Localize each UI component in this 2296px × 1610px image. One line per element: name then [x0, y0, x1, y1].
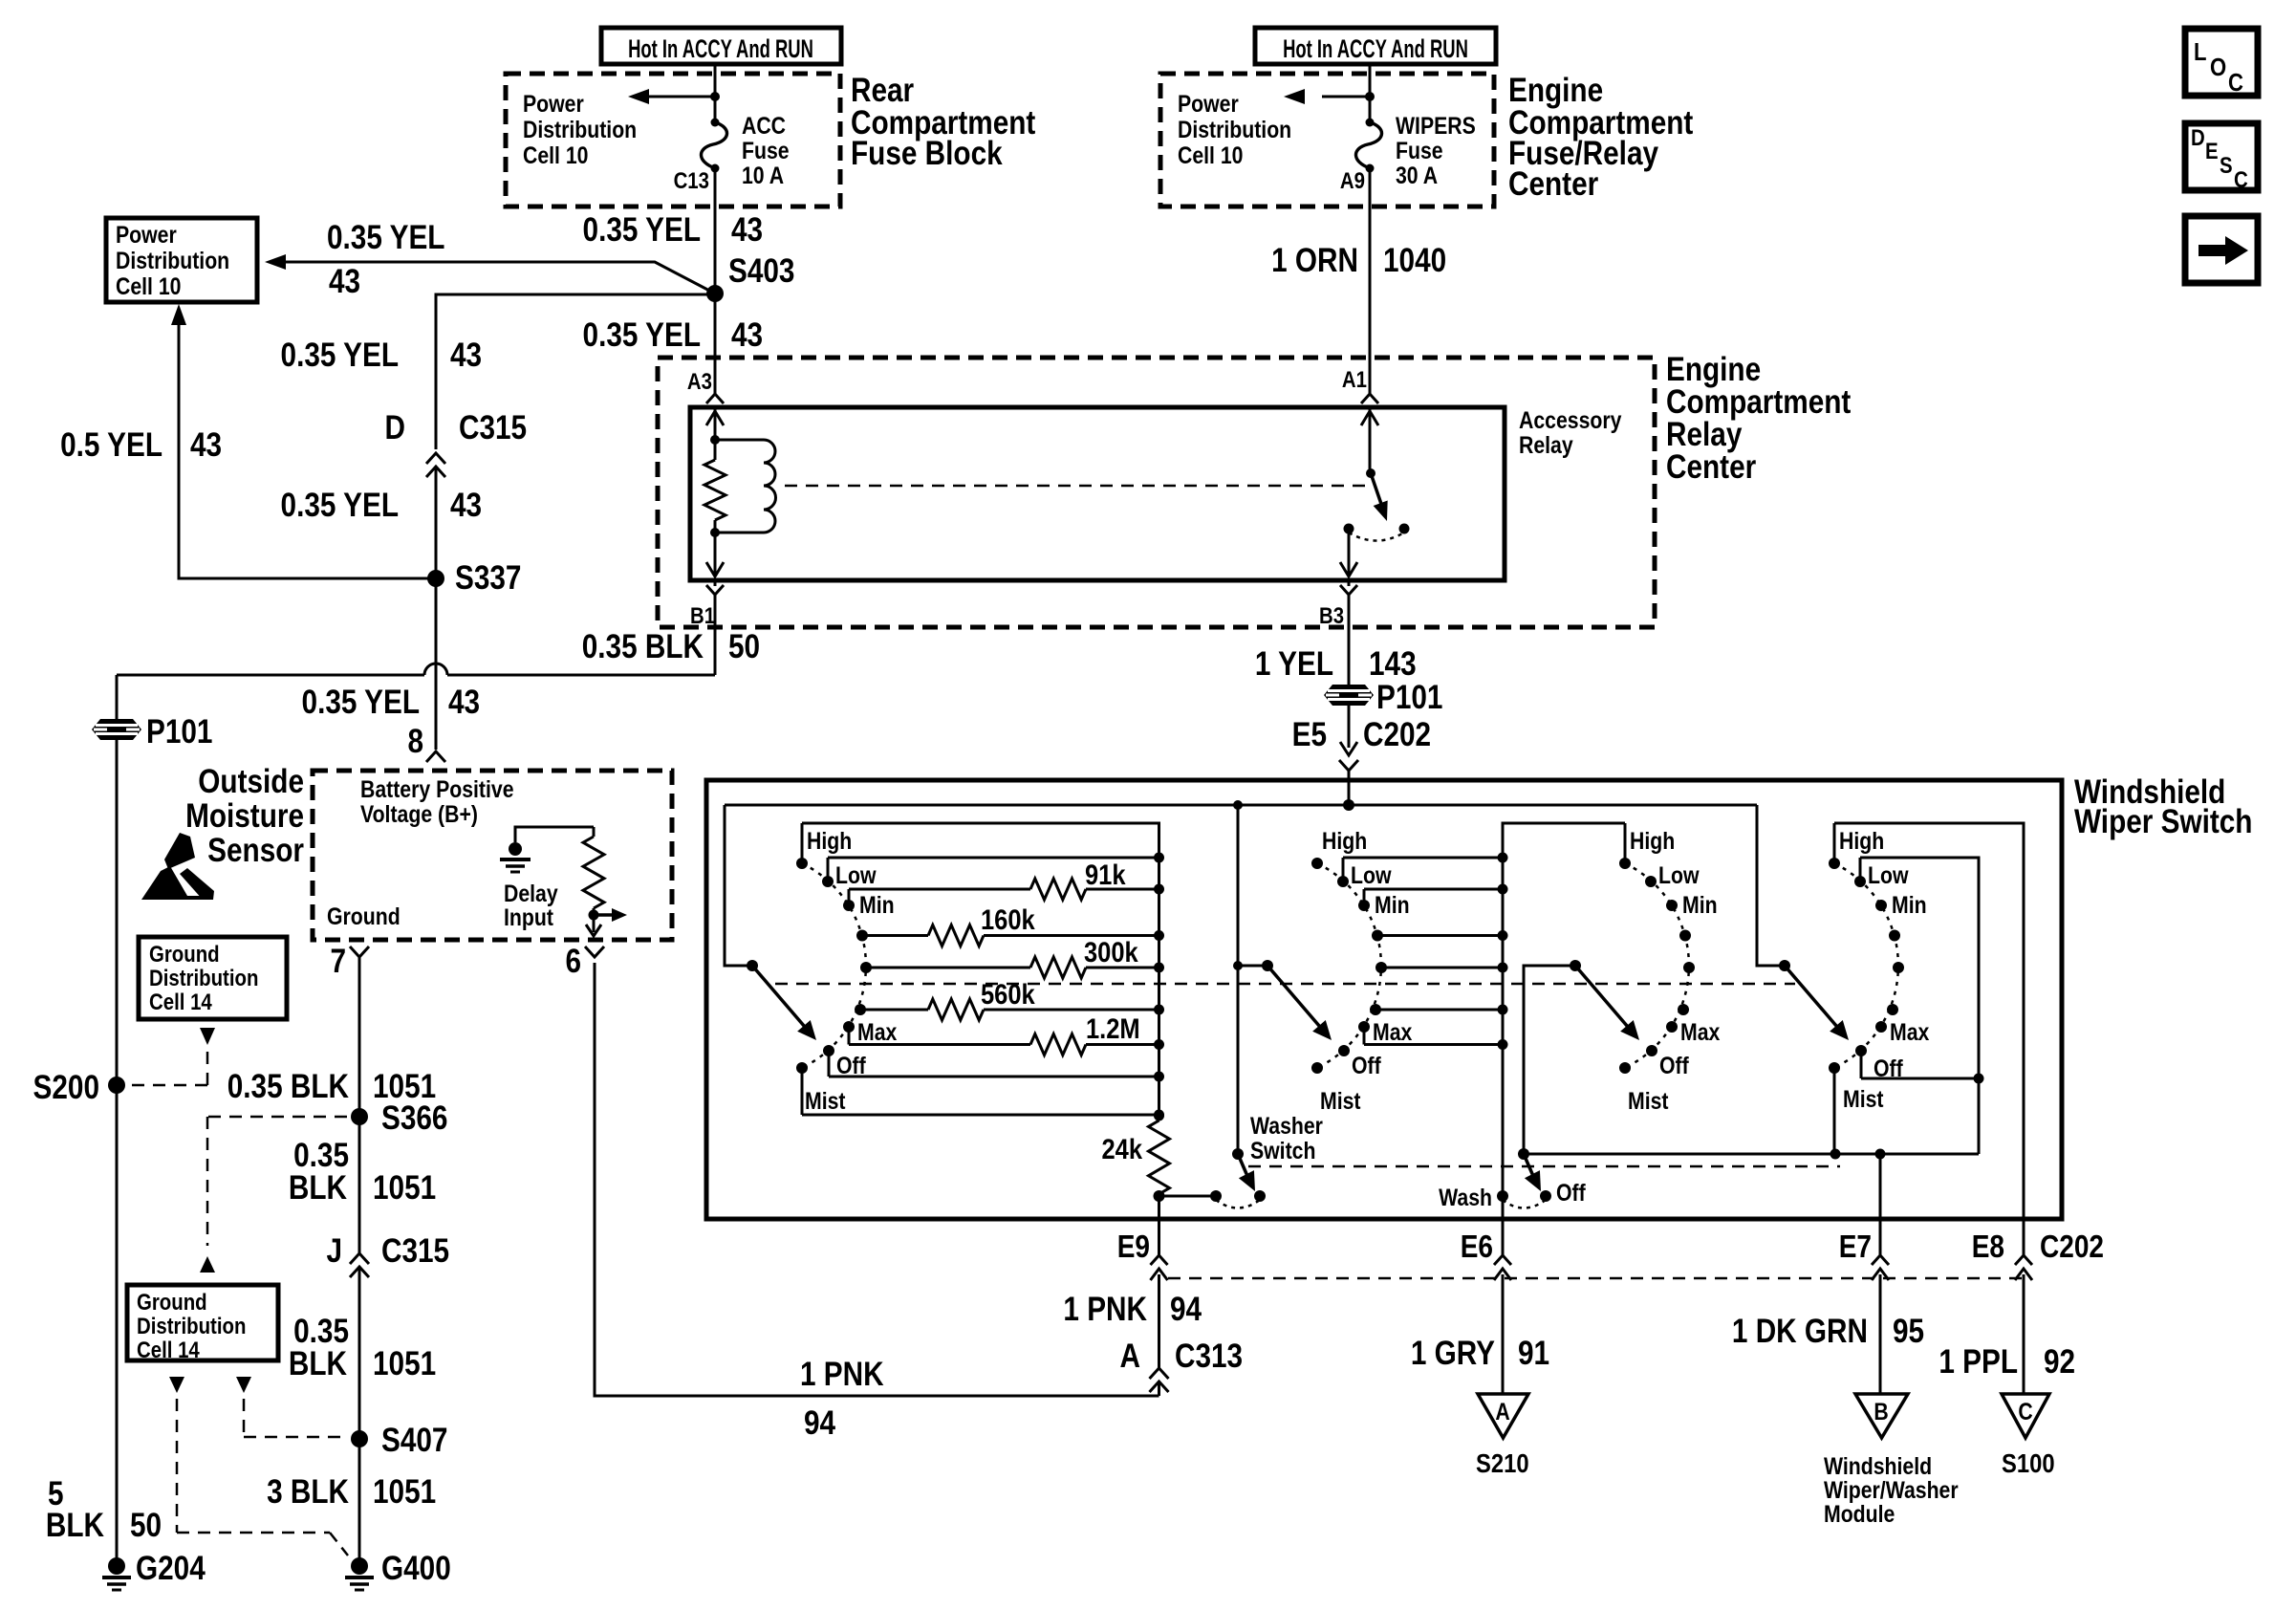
- svg-text:S: S: [2220, 152, 2233, 178]
- splice S403: [706, 252, 794, 302]
- wire 1 GRY 91 E6 to S210: [1411, 1335, 1549, 1372]
- node relay coil bottom: [710, 528, 720, 537]
- dashed box Engine Compartment Relay Center: [658, 358, 1655, 627]
- pin C13: [674, 167, 709, 193]
- svg-text:E: E: [2205, 138, 2219, 163]
- connector C315 pin D: [385, 409, 528, 578]
- arrows from Ground Distribution (lower): [169, 1377, 251, 1393]
- svg-text:1051: 1051: [373, 1345, 436, 1382]
- svg-text:S366: S366: [381, 1099, 447, 1137]
- splice S366: [351, 1099, 447, 1253]
- mechanical coupling dashed line (wiper banks): [775, 983, 1795, 986]
- node relay coil top: [710, 435, 720, 445]
- svg-text:WIPERS: WIPERS: [1396, 112, 1476, 139]
- pin E7: [1839, 1154, 1889, 1394]
- svg-text:C202: C202: [2040, 1229, 2104, 1265]
- pin E9: [1117, 1221, 1168, 1368]
- svg-text:560k: 560k: [981, 978, 1035, 1010]
- relay coil resistor: [704, 440, 726, 533]
- svg-text:Windshield: Windshield: [1824, 1452, 1932, 1479]
- bank 1 Off row wire: [829, 1072, 1164, 1082]
- svg-text:BLK: BLK: [46, 1507, 105, 1544]
- label Engine Compartment Fuse/Relay Center: [1508, 72, 1693, 203]
- svg-text:E5: E5: [1292, 716, 1327, 753]
- wire 1 ORN 1040 fuse A9 to relay A1: [1271, 168, 1446, 390]
- svg-text:J: J: [326, 1232, 342, 1270]
- resistor 1.2M: [849, 1012, 1164, 1055]
- bank 4 position labels: [1839, 827, 1929, 1112]
- svg-text:Cell 10: Cell 10: [116, 272, 181, 299]
- svg-text:Center: Center: [1666, 448, 1757, 486]
- washer switch Wash and Off contacts: [1439, 1179, 1586, 1210]
- svg-text:1 PNK: 1 PNK: [800, 1356, 884, 1393]
- label box Ground Distribution Cell 14 (upper): [139, 937, 287, 1019]
- bank 4 Low row: [1860, 858, 1984, 1154]
- wiper switch bank 4 pivot and arm: [1779, 960, 1855, 1046]
- svg-text:Mist: Mist: [1628, 1087, 1669, 1114]
- wire feed to wiper bank 4 pivot: [1757, 805, 1785, 966]
- legend box DESC: [2185, 123, 2258, 192]
- svg-text:A1: A1: [1342, 366, 1367, 392]
- svg-text:91: 91: [1518, 1335, 1549, 1372]
- svg-text:43: 43: [731, 211, 763, 249]
- relay actuation dashed link: [785, 485, 1371, 488]
- svg-text:Min: Min: [1375, 891, 1410, 918]
- bank 1 Mist row wire: [802, 1110, 1164, 1120]
- svg-text:C315: C315: [459, 409, 527, 446]
- svg-text:Low: Low: [835, 861, 877, 888]
- svg-text:50: 50: [130, 1507, 162, 1544]
- washer switch contacts: [1210, 1190, 1266, 1208]
- splice S407: [351, 1422, 447, 1459]
- label S100: [2002, 1447, 2055, 1478]
- resistor 300k: [866, 936, 1164, 978]
- svg-text:94: 94: [1170, 1291, 1202, 1328]
- svg-text:0.35 YEL: 0.35 YEL: [583, 211, 701, 249]
- relay output to B3 arrow: [1340, 529, 1357, 577]
- svg-text:Max: Max: [1373, 1018, 1412, 1045]
- fuse ACC 10A: [701, 112, 789, 188]
- svg-text:43: 43: [450, 337, 482, 374]
- svg-text:Distribution: Distribution: [116, 247, 229, 273]
- resistor 24k: [1101, 1111, 1169, 1195]
- washer switch pivot and arm: [1232, 1148, 1263, 1195]
- svg-text:1051: 1051: [373, 1169, 436, 1207]
- dashed branch to S407: [244, 1399, 347, 1437]
- label box Ground Distribution Cell 14 (lower): [127, 1285, 278, 1362]
- svg-text:0.35 YEL: 0.35 YEL: [281, 487, 399, 524]
- splice S337: [427, 559, 521, 597]
- bank 1 contact dots: [796, 858, 872, 1074]
- resistor 91k: [849, 859, 1164, 900]
- wire 0.35 BLK 1051 C315 to S407: [289, 1313, 436, 1382]
- svg-text:10 A: 10 A: [742, 162, 784, 188]
- svg-text:1040: 1040: [1383, 242, 1446, 279]
- washer switch output pivot and arm: [1518, 1148, 1549, 1195]
- svg-text:S337: S337: [455, 559, 521, 597]
- relay switch common from A1: [1361, 407, 1378, 473]
- label Windshield Wiper Switch: [2074, 773, 2252, 840]
- svg-text:Wiper Switch: Wiper Switch: [2074, 803, 2252, 840]
- svg-text:Rear: Rear: [851, 72, 914, 109]
- svg-text:1 PNK: 1 PNK: [1063, 1291, 1147, 1328]
- svg-text:0.35: 0.35: [293, 1137, 349, 1174]
- sensor internal ground symbol: [500, 827, 594, 872]
- wire 1 YEL 143 B3 to P101: [1255, 645, 1417, 683]
- svg-text:0.35 BLK: 0.35 BLK: [582, 628, 704, 665]
- wiper switch bank 3 pivot and arm: [1570, 960, 1646, 1046]
- svg-text:B1: B1: [690, 602, 715, 628]
- svg-text:P101: P101: [146, 713, 212, 751]
- wire 3 BLK 1051 S407 to G400: [267, 1439, 436, 1558]
- bank 2 row wires to E6 bus: [1343, 853, 1508, 1051]
- svg-text:160k: 160k: [981, 903, 1035, 935]
- svg-text:0.35 YEL: 0.35 YEL: [281, 337, 399, 374]
- sensor delay resistor: [583, 827, 604, 915]
- svg-text:Distribution: Distribution: [137, 1313, 246, 1338]
- relay coil inductor: [715, 440, 776, 533]
- svg-text:91k: 91k: [1085, 859, 1126, 890]
- svg-text:Compartment: Compartment: [1666, 383, 1851, 421]
- svg-text:Max: Max: [857, 1018, 897, 1045]
- svg-text:C315: C315: [381, 1232, 449, 1270]
- wiper switch bank 1 contact arc: [802, 863, 866, 1068]
- ground G204: [102, 1550, 206, 1590]
- label Delay Input: [504, 880, 558, 930]
- relay coil input arrow A3: [706, 407, 724, 440]
- svg-text:A: A: [1495, 1398, 1510, 1425]
- svg-text:43: 43: [448, 684, 480, 721]
- label Power Distribution Cell 10 (engine fuse center): [1178, 90, 1291, 168]
- wire 0.35 YEL 43 S403 down to relay A3: [583, 294, 764, 390]
- ESD sensitivity symbol: [141, 833, 214, 900]
- svg-text:S403: S403: [728, 252, 794, 290]
- svg-text:A: A: [1120, 1338, 1140, 1375]
- off-page triangle C: [2002, 1394, 2049, 1438]
- svg-text:E9: E9: [1117, 1229, 1150, 1265]
- svg-text:6: 6: [565, 943, 581, 980]
- svg-text:S210: S210: [1476, 1447, 1529, 1478]
- wire 0.5 YEL 43 S337 to Power Distribution (arrow up): [60, 304, 436, 578]
- wiper switch bank 2 contact arc: [1317, 863, 1381, 1068]
- svg-text:Hot In ACCY And RUN: Hot In ACCY And RUN: [628, 34, 813, 63]
- svg-text:Wiper/Washer: Wiper/Washer: [1824, 1476, 1959, 1503]
- dashed box Engine Compartment Fuse/Relay Center: [1160, 74, 1494, 207]
- wire 0.35 YEL 43 fuse C13 to S403: [583, 168, 764, 294]
- svg-text:Power: Power: [1178, 90, 1239, 117]
- svg-text:Power: Power: [116, 221, 177, 248]
- wire washer output rail: [1524, 1149, 1979, 1160]
- legend box LOC: [2185, 29, 2258, 97]
- svg-text:Off: Off: [1556, 1179, 1586, 1206]
- svg-text:L: L: [2194, 38, 2206, 66]
- svg-text:Outside: Outside: [198, 763, 304, 800]
- label Power Distribution Cell 10 (rear fuse block): [523, 90, 637, 168]
- bank 2 position labels: [1320, 827, 1412, 1114]
- svg-text:A3: A3: [687, 368, 712, 394]
- sensor pin 8: [407, 723, 445, 762]
- svg-text:Off: Off: [1352, 1052, 1381, 1078]
- relay switch arm: [1366, 468, 1395, 524]
- relay switch contacts: [1344, 524, 1410, 541]
- fuse WIPERS 30A: [1355, 112, 1475, 188]
- svg-text:1 GRY: 1 GRY: [1411, 1335, 1495, 1372]
- bank 4 Mist wire: [1833, 1068, 1836, 1154]
- svg-text:O: O: [2210, 54, 2226, 81]
- svg-text:Fuse: Fuse: [1396, 137, 1443, 163]
- wiper switch bank 1 pivot and arm: [747, 960, 823, 1046]
- svg-text:Battery Positive: Battery Positive: [360, 775, 514, 802]
- relay U1 Accessory Relay box: [690, 406, 1622, 580]
- wiper switch bank 3 contact arc: [1625, 863, 1689, 1068]
- wire 0.35 BLK 50 B1 to P101 to G204: [582, 628, 760, 665]
- svg-text:S407: S407: [381, 1422, 447, 1459]
- svg-text:BLK: BLK: [289, 1345, 348, 1382]
- svg-text:43: 43: [450, 487, 482, 524]
- bank 4 Off row (park): [1861, 1051, 1979, 1078]
- off-page triangle A: [1478, 1394, 1528, 1438]
- svg-text:Ground: Ground: [137, 1289, 207, 1315]
- svg-text:Cell 14: Cell 14: [137, 1337, 200, 1362]
- svg-text:Input: Input: [504, 903, 553, 930]
- svg-text:S100: S100: [2002, 1447, 2055, 1478]
- svg-text:C: C: [2018, 1398, 2033, 1425]
- svg-text:Distribution: Distribution: [1178, 116, 1291, 142]
- svg-text:Washer: Washer: [1250, 1112, 1323, 1139]
- svg-text:Cell 10: Cell 10: [1178, 141, 1243, 168]
- svg-text:92: 92: [2044, 1343, 2075, 1381]
- svg-text:High: High: [807, 827, 852, 854]
- pin B3: [1319, 580, 1357, 685]
- pin A1: [1342, 366, 1378, 403]
- svg-text:Fuse Block: Fuse Block: [851, 135, 1004, 172]
- svg-text:0.35 YEL: 0.35 YEL: [583, 316, 701, 354]
- svg-text:Switch: Switch: [1250, 1137, 1315, 1164]
- label Windshield Wiper/Washer Module: [1824, 1452, 1959, 1527]
- label Rear Compartment Fuse Block: [851, 72, 1035, 172]
- svg-text:3 BLK: 3 BLK: [267, 1473, 349, 1511]
- pin E8 / C202: [1972, 1221, 2104, 1394]
- wire 5 BLK 50 P101 to G204: [46, 740, 162, 1566]
- wire 0.35 BLK 1051 sensor pin 7 to S366: [227, 1068, 436, 1105]
- bank 2 contact dots: [1311, 858, 1387, 1074]
- splice S200: [33, 1069, 125, 1106]
- svg-text:Mist: Mist: [805, 1087, 846, 1114]
- svg-text:E7: E7: [1839, 1229, 1872, 1265]
- svg-text:Distribution: Distribution: [523, 116, 637, 142]
- wire feed to wiper bank 2 pivot and washer pivot: [1233, 805, 1267, 1154]
- svg-text:1 YEL: 1 YEL: [1255, 645, 1333, 683]
- svg-text:1051: 1051: [373, 1473, 436, 1511]
- svg-text:0.35 YEL: 0.35 YEL: [302, 684, 420, 721]
- svg-text:Off: Off: [836, 1052, 866, 1078]
- svg-text:43: 43: [731, 316, 763, 354]
- mechanical coupling dashed line (washer): [1248, 1165, 1840, 1168]
- arrow to Power Distribution Cell 10 (rear): [628, 89, 715, 104]
- washer switch contact wire to E9: [1159, 1195, 1217, 1198]
- label Ground (sensor): [327, 903, 401, 929]
- svg-text:P101: P101: [1376, 679, 1442, 716]
- svg-text:95: 95: [1893, 1313, 1924, 1350]
- svg-text:0.35 BLK: 0.35 BLK: [227, 1068, 350, 1105]
- svg-text:1 ORN: 1 ORN: [1271, 242, 1358, 279]
- svg-text:High: High: [1630, 827, 1675, 854]
- svg-text:0.35: 0.35: [293, 1313, 349, 1350]
- node 24k bottom / E9: [1154, 1190, 1165, 1219]
- svg-text:Relay: Relay: [1666, 416, 1742, 453]
- bank 3 contact dots: [1619, 858, 1695, 1074]
- pin B1: [690, 580, 724, 675]
- bank 4 High row to E8: [1834, 823, 2024, 1219]
- wire 1 PNK 94 C313 to sensor pin 6: [595, 963, 1159, 1442]
- svg-text:Low: Low: [1658, 861, 1700, 888]
- svg-text:Center: Center: [1508, 165, 1599, 203]
- svg-text:Voltage (B+): Voltage (B+): [360, 800, 478, 827]
- svg-text:Fuse: Fuse: [742, 137, 790, 163]
- svg-text:143: 143: [1369, 645, 1417, 683]
- svg-text:High: High: [1839, 827, 1884, 854]
- bank 2 contact jogs: [1343, 858, 1364, 1045]
- bank 1 contact jogs: [802, 823, 849, 1115]
- svg-text:Min: Min: [1682, 891, 1718, 918]
- svg-text:Engine: Engine: [1666, 351, 1761, 388]
- label box Hot In ACCY And RUN (engine): [1255, 28, 1496, 64]
- svg-text:Min: Min: [859, 891, 895, 918]
- svg-text:Accessory: Accessory: [1519, 406, 1622, 433]
- label Battery Positive Voltage (B+): [360, 775, 514, 827]
- svg-text:G400: G400: [381, 1550, 451, 1587]
- wire from Hot feed to ACC fuse: [710, 64, 720, 122]
- wire 1 DK GRN 95 E7 to wiper module: [1732, 1313, 1924, 1350]
- svg-text:43: 43: [329, 263, 360, 300]
- svg-text:Mist: Mist: [1320, 1087, 1361, 1114]
- svg-text:1.2M: 1.2M: [1086, 1012, 1140, 1044]
- bank 1 High row wire: [802, 823, 1159, 1116]
- svg-text:Low: Low: [1868, 861, 1909, 888]
- sensor pin 7: [330, 943, 369, 1117]
- label box Power Distribution Cell 10 (left): [106, 218, 257, 302]
- bank 1 Low row wire: [828, 853, 1164, 863]
- svg-text:Wash: Wash: [1439, 1184, 1492, 1210]
- wire 0.35 YEL 43 S403 to Power Distribution (arrow left): [265, 219, 715, 300]
- svg-text:8: 8: [407, 723, 423, 760]
- wire wiper switch internal feed bus: [725, 799, 1757, 811]
- label Outside Moisture Sensor: [185, 763, 304, 869]
- arrow from Ground Distribution (upper) to S200 net: [128, 1028, 215, 1085]
- bank 3 High jog to E6 bus row: [1624, 823, 1627, 863]
- svg-text:1 DK GRN: 1 DK GRN: [1732, 1313, 1868, 1350]
- svg-text:Ground: Ground: [327, 903, 401, 929]
- svg-text:7: 7: [330, 943, 346, 980]
- wiper switch bank 4 contact arc: [1834, 863, 1898, 1068]
- svg-text:C313: C313: [1175, 1338, 1243, 1375]
- wire feed to wiper bank 1 pivot: [725, 805, 752, 966]
- label box Hot In ACCY And RUN (rear): [601, 28, 841, 64]
- svg-text:Off: Off: [1874, 1055, 1903, 1081]
- wire B1 run to left with hop over YEL wire: [117, 664, 715, 719]
- sensor delay node arrows: [586, 908, 627, 936]
- wiper switch bank 2 pivot and arm: [1262, 960, 1338, 1046]
- svg-text:S200: S200: [33, 1069, 99, 1106]
- svg-text:Mist: Mist: [1843, 1085, 1884, 1112]
- label S210: [1476, 1447, 1529, 1478]
- svg-text:Power: Power: [523, 90, 584, 117]
- svg-text:E8: E8: [1972, 1229, 2004, 1265]
- wire 1 PNK 94 E9 to C313: [1063, 1291, 1202, 1328]
- dashed box Outside Moisture Sensor (battery positive voltage): [313, 771, 672, 940]
- svg-text:G204: G204: [136, 1550, 206, 1587]
- label Engine Compartment Relay Center: [1666, 351, 1851, 486]
- svg-text:Ground: Ground: [149, 941, 220, 967]
- connector P101 (engine harness): [1324, 679, 1442, 716]
- dashed box Rear Compartment Fuse Block: [506, 74, 840, 207]
- svg-text:300k: 300k: [1084, 936, 1138, 968]
- svg-text:0.35 YEL: 0.35 YEL: [327, 219, 444, 256]
- svg-text:1 PPL: 1 PPL: [1939, 1343, 2018, 1381]
- wire from Hot feed to WIPERS fuse: [1365, 64, 1375, 122]
- svg-text:Max: Max: [1680, 1018, 1720, 1045]
- svg-text:Sensor: Sensor: [207, 832, 304, 869]
- wire 0.35 YEL 43 S403 to connector C315 D: [281, 294, 715, 449]
- svg-text:94: 94: [804, 1404, 835, 1442]
- wire 0.35 YEL 43 S337 to sensor pin 8: [302, 578, 481, 750]
- wire E6 bus: [1503, 823, 1625, 1219]
- wire E5 C202 into wiper switch: [1292, 706, 1431, 805]
- svg-text:BLK: BLK: [289, 1169, 348, 1207]
- svg-text:Cell 10: Cell 10: [523, 141, 588, 168]
- pin E6: [1461, 1221, 1511, 1394]
- svg-text:A9: A9: [1340, 167, 1365, 193]
- svg-text:C: C: [2228, 69, 2243, 97]
- connector P101 (left): [92, 713, 212, 751]
- svg-text:Module: Module: [1824, 1500, 1895, 1527]
- connector C315 pin J: [326, 1232, 449, 1439]
- dashed branch to G400: [177, 1399, 348, 1556]
- svg-text:C202: C202: [1363, 716, 1431, 753]
- svg-text:24k: 24k: [1101, 1133, 1142, 1164]
- bank 1 position labels: [805, 827, 897, 1114]
- svg-text:Distribution: Distribution: [149, 965, 258, 990]
- component box Windshield Wiper Switch: [706, 780, 2062, 1219]
- pin A3: [687, 368, 724, 403]
- svg-text:D: D: [385, 409, 405, 446]
- svg-text:B3: B3: [1319, 602, 1344, 628]
- resistor 160k: [862, 903, 1164, 946]
- wire bank 3 pivot to washer switch pivot: [1524, 966, 1575, 1154]
- svg-text:30 A: 30 A: [1396, 162, 1438, 188]
- svg-text:Low: Low: [1351, 861, 1392, 888]
- svg-text:B: B: [1874, 1398, 1888, 1425]
- connector C313 pin A: [1120, 1338, 1244, 1396]
- svg-text:C13: C13: [674, 167, 709, 193]
- relay coil to B1 arrow: [706, 533, 724, 577]
- svg-text:C: C: [2234, 166, 2248, 192]
- svg-text:Cell 14: Cell 14: [149, 989, 212, 1014]
- sensor pin 6: [565, 943, 604, 980]
- svg-text:D: D: [2191, 124, 2205, 150]
- svg-text:E6: E6: [1461, 1229, 1493, 1265]
- pin A9: [1340, 167, 1365, 193]
- off-page triangle B: [1855, 1394, 1908, 1438]
- bank 4 contact dots: [1829, 858, 1904, 1074]
- ground G400: [345, 1550, 451, 1590]
- svg-text:Off: Off: [1659, 1052, 1689, 1078]
- resistor 560k: [860, 978, 1164, 1020]
- svg-text:High: High: [1322, 827, 1367, 854]
- svg-text:50: 50: [728, 628, 760, 665]
- legend box next-page arrow: [2185, 216, 2258, 283]
- arrow to Power Distribution Cell 10 (engine): [1284, 89, 1370, 104]
